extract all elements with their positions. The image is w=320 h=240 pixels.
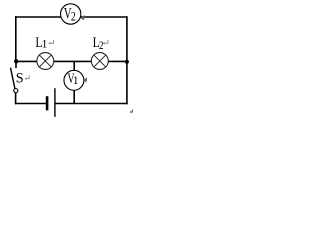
svg-text:1: 1 (73, 74, 79, 87)
node junction dot right (125, 60, 129, 64)
battery positive long plate (54, 88, 56, 117)
trailing paragraph mark (131, 110, 133, 113)
wire switch lower stub (15, 92, 17, 104)
switch S lever (11, 68, 15, 89)
svg-text:2: 2 (71, 10, 76, 24)
paragraph mark after S (26, 75, 30, 78)
paragraph mark after V2 (80, 15, 84, 20)
svg-text:S: S (16, 71, 24, 87)
voltmeter V1 (64, 70, 84, 90)
paragraph mark after L1 (49, 40, 53, 44)
node junction dot left (14, 59, 18, 63)
lamp L2 (91, 53, 108, 70)
battery negative short plate (46, 96, 49, 110)
wire bottom right (55, 103, 128, 105)
wire top (15, 16, 127, 18)
paragraph mark after L2 (104, 40, 108, 44)
wire left upper (15, 16, 17, 62)
wire middle branch (15, 60, 127, 62)
switch S bottom terminal circle (14, 89, 18, 93)
lamp L1 (37, 53, 54, 70)
wire V1 vertical branch (73, 61, 75, 103)
wire switch upper stub (15, 61, 17, 68)
voltmeter V2 (61, 4, 81, 24)
paragraph mark after V1 (83, 78, 87, 83)
svg-text:1: 1 (42, 37, 48, 51)
wire right (126, 16, 128, 104)
svg-text:2: 2 (99, 38, 104, 52)
wire bottom left (15, 103, 46, 105)
